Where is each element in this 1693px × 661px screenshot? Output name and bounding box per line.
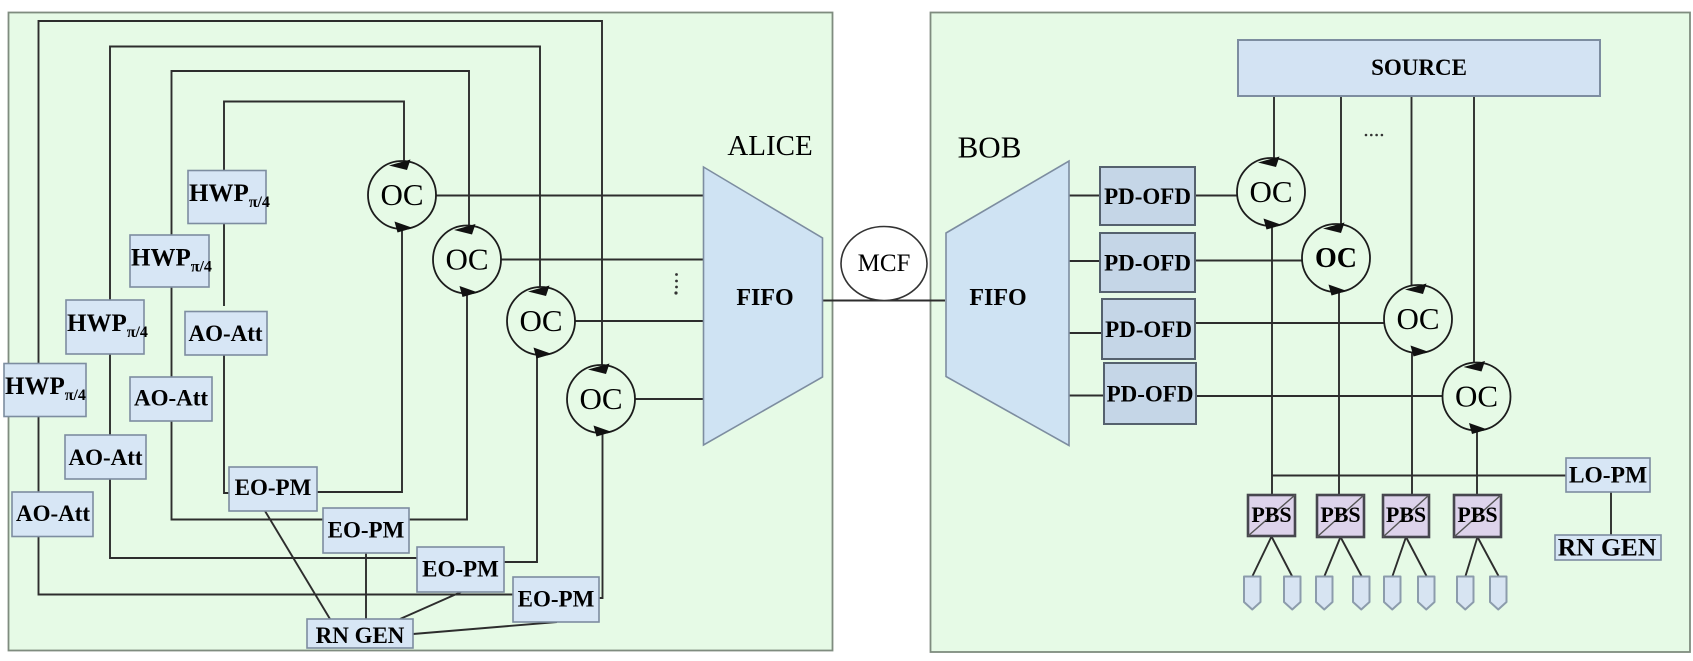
svg-text:ALICE: ALICE <box>727 130 812 162</box>
svg-text:OC: OC <box>445 242 488 277</box>
svg-text:FIFO: FIFO <box>969 285 1026 311</box>
svg-text:FIFO: FIFO <box>736 285 793 311</box>
svg-text:OC: OC <box>1249 174 1292 209</box>
svg-text:OC: OC <box>380 177 423 212</box>
svg-text:PD-OFD: PD-OFD <box>1107 382 1194 407</box>
svg-text:PD-OFD: PD-OFD <box>1104 251 1191 276</box>
svg-text:LO-PM: LO-PM <box>1569 463 1647 489</box>
svg-text:EO-PM: EO-PM <box>235 475 312 500</box>
svg-text:MCF: MCF <box>858 250 911 277</box>
svg-text:PBS: PBS <box>1457 502 1497 527</box>
svg-text:AO-Att: AO-Att <box>68 445 142 470</box>
svg-text:OC: OC <box>1396 301 1439 336</box>
svg-text:PD-OFD: PD-OFD <box>1105 317 1192 342</box>
svg-text:PBS: PBS <box>1320 502 1360 527</box>
svg-text:OC: OC <box>579 381 622 416</box>
svg-text:PBS: PBS <box>1251 502 1291 527</box>
svg-text:AO-Att: AO-Att <box>134 386 208 411</box>
svg-text:EO-PM: EO-PM <box>518 587 595 612</box>
svg-text:EO-PM: EO-PM <box>422 557 499 582</box>
svg-text:PD-OFD: PD-OFD <box>1104 184 1191 209</box>
svg-text:RN GEN: RN GEN <box>1558 533 1657 562</box>
svg-text:OC: OC <box>1455 379 1498 414</box>
svg-text:RN GEN: RN GEN <box>316 623 405 648</box>
svg-text:OC: OC <box>1315 243 1357 274</box>
svg-text:BOB: BOB <box>958 130 1022 165</box>
svg-text:SOURCE: SOURCE <box>1371 55 1467 80</box>
svg-text:PBS: PBS <box>1386 502 1426 527</box>
svg-text:AO-Att: AO-Att <box>16 501 90 526</box>
svg-text:OC: OC <box>519 303 562 338</box>
svg-text:EO-PM: EO-PM <box>328 518 405 543</box>
svg-text:AO-Att: AO-Att <box>188 321 262 346</box>
